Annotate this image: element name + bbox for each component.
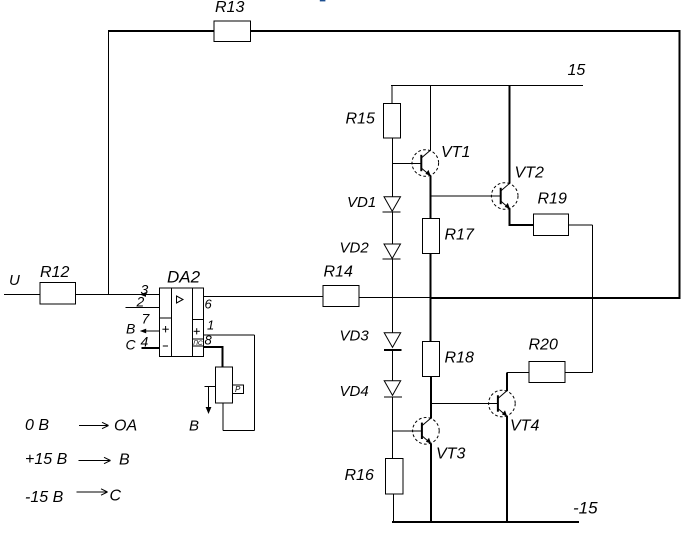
wire: feedback right vertical <box>679 30 681 299</box>
wiper arrow to B <box>189 387 216 435</box>
pin 2 <box>126 294 160 310</box>
svg-text:DA2: DA2 <box>167 268 201 287</box>
wire: VT3 base <box>393 430 422 432</box>
resistor R14 <box>323 264 359 307</box>
wire: R20 right <box>565 372 593 374</box>
transistor VT1 <box>412 144 470 176</box>
wire: VD4 to R16 <box>392 397 394 459</box>
pin 3 <box>140 282 149 298</box>
resistor R16 <box>345 459 404 495</box>
wire: R17 to R18 <box>430 254 432 342</box>
diode VD3 <box>340 328 402 350</box>
wire: R15 to VD1 <box>392 138 394 197</box>
svg-text:2: 2 <box>136 294 145 310</box>
wire: output node thick <box>430 297 681 299</box>
svg-text:C: C <box>126 337 137 353</box>
svg-text:VD2: VD2 <box>340 240 370 257</box>
+15 rail <box>391 62 585 86</box>
resistor R17 <box>423 219 475 254</box>
wire: rail to R15 <box>391 86 393 104</box>
svg-text:R13: R13 <box>215 0 244 16</box>
wire: VT1 base <box>392 162 421 164</box>
svg-text:0 B: 0 B <box>25 417 49 434</box>
legend row -15V -> C <box>25 488 122 507</box>
svg-text:VD4: VD4 <box>340 383 369 400</box>
wire: VT1 emitter to R17 <box>430 176 432 219</box>
wire: R16 to -15 rail <box>393 494 395 522</box>
wire: output node thin (R14 to junction) <box>359 297 431 299</box>
wire: R19 right to vertical <box>569 224 593 226</box>
legend row 0V -> OA <box>25 417 137 435</box>
wire: feedback left vertical <box>108 31 110 295</box>
wire: VD1 to VD2 <box>392 212 394 244</box>
op-amp DA2 body <box>160 268 204 357</box>
svg-text:B: B <box>119 452 130 469</box>
pin 1 and wire loop <box>204 318 255 431</box>
svg-text:VT4: VT4 <box>510 418 539 435</box>
svg-text:VT2: VT2 <box>515 165 544 182</box>
blue text fragment top <box>320 0 326 1</box>
wire: R19-R20 vertical <box>592 225 594 373</box>
resistor R13 <box>214 0 251 42</box>
wire: VT4 base <box>431 403 498 405</box>
svg-text:R18: R18 <box>445 350 474 367</box>
diode VD1 <box>347 194 401 212</box>
resistor R19 <box>534 191 569 236</box>
-15 rail <box>392 499 598 524</box>
svg-text:ПС: ПС <box>193 340 203 347</box>
wire: feedback top horizontal <box>108 30 680 32</box>
svg-text:-15: -15 <box>573 499 598 518</box>
legend row +15V -> B <box>25 451 130 469</box>
svg-text:VD3: VD3 <box>340 328 370 345</box>
svg-text:4: 4 <box>141 334 149 350</box>
svg-text:R15: R15 <box>346 111 375 128</box>
svg-text:R19: R19 <box>538 191 567 208</box>
svg-text:OA: OA <box>114 418 137 435</box>
wire: VT3 emitter to -15 rail <box>430 443 432 523</box>
svg-text:-15 B: -15 B <box>25 489 64 506</box>
svg-text:+15 B: +15 B <box>25 451 68 468</box>
transistor VT3 <box>413 418 466 463</box>
svg-text:B: B <box>189 418 199 435</box>
trimmer potentiometer (offset null) <box>216 367 244 403</box>
wire: VD3 to VD4 <box>392 350 394 381</box>
transistor VT2 <box>491 165 544 210</box>
svg-text:VD1: VD1 <box>347 194 376 211</box>
svg-text:R12: R12 <box>40 264 69 281</box>
transistor VT4 <box>489 390 540 434</box>
svg-text:6: 6 <box>205 297 213 312</box>
svg-text:R20: R20 <box>529 337 558 354</box>
svg-text:R17: R17 <box>445 227 475 244</box>
pin 4 (C) <box>126 334 160 353</box>
wire: VT4 emitter to -15 rail <box>506 416 508 523</box>
pin 7 (B) <box>126 311 160 337</box>
wire: pin 6 to R14 <box>204 296 324 298</box>
resistor R18 <box>423 342 474 377</box>
svg-text:P: P <box>235 385 241 394</box>
svg-text:R14: R14 <box>324 264 353 281</box>
wire: VT2 emitter to R19 <box>509 209 534 226</box>
wire: R18 to VT3 collector <box>430 377 432 419</box>
svg-text:VT3: VT3 <box>436 446 465 463</box>
wire: rail to VT1 collector <box>430 86 432 151</box>
diode VD4 <box>340 381 403 400</box>
svg-text:U: U <box>9 272 20 289</box>
wire: rail to VT2 collector <box>509 85 511 184</box>
svg-text:C: C <box>110 488 122 505</box>
resistor R20 <box>529 337 566 383</box>
wire: R20 left to VT4 collector <box>507 373 529 392</box>
svg-text:8: 8 <box>205 333 213 348</box>
svg-text:7: 7 <box>142 311 151 327</box>
svg-text:1: 1 <box>207 318 214 333</box>
wire: VD2 to VD3 <box>392 259 394 333</box>
svg-text:R16: R16 <box>345 467 374 484</box>
resistor R12 <box>40 264 76 304</box>
svg-text:VT1: VT1 <box>441 144 470 161</box>
pin 8 and wire to trimmer <box>204 333 223 368</box>
wire: input U to pin 3 <box>4 294 160 296</box>
svg-text:15: 15 <box>568 62 586 79</box>
wire: VT2 base <box>431 195 501 197</box>
resistor R15 <box>346 104 401 139</box>
svg-text:B: B <box>126 321 135 337</box>
diode VD2 <box>340 240 401 260</box>
